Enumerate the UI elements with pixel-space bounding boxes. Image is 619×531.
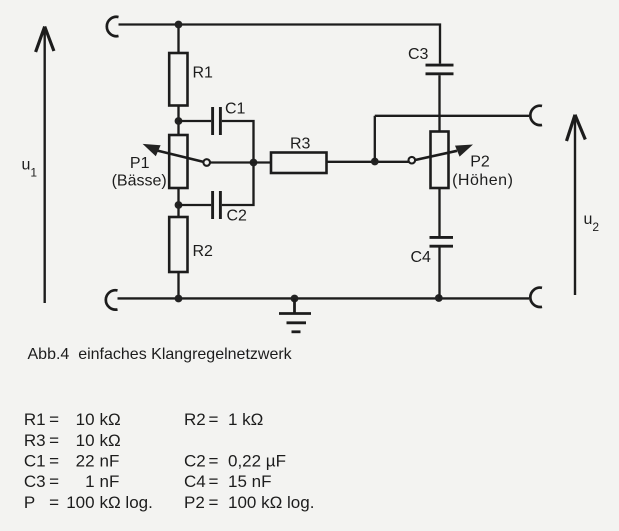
svg-text:100: 100: [66, 493, 94, 512]
svg-text:=: =: [209, 472, 219, 491]
junction: R1 / C1 / P1 node: [175, 117, 183, 125]
svg-text:1 kΩ: 1 kΩ: [228, 410, 263, 429]
wire: R1 to P1: [177, 106, 179, 136]
svg-text:C4: C4: [184, 472, 206, 491]
svg-text:P: P: [24, 493, 35, 512]
capacitor C3: [426, 65, 454, 74]
svg-text:nF: nF: [100, 472, 120, 491]
junction: top rail / R1: [175, 21, 183, 29]
svg-text:C1: C1: [24, 452, 46, 471]
svg-text:P1: P1: [130, 155, 150, 172]
svg-text:C3: C3: [408, 46, 429, 63]
svg-text:=: =: [49, 472, 59, 491]
svg-text:P2: P2: [184, 493, 205, 512]
wire: node to C1 left plate: [179, 120, 212, 122]
value label C4 = 15 nF: [184, 472, 271, 491]
svg-text:C1: C1: [225, 101, 246, 118]
output terminal lower (bottom-right socket): [530, 288, 542, 307]
wire: junction up to output rail: [374, 116, 376, 162]
svg-text:22: 22: [76, 452, 95, 471]
wire: output rail to upper output socket: [375, 115, 529, 117]
capacitor C1: [213, 107, 221, 135]
value label R3 = 10 kOhm: [24, 431, 121, 450]
svg-text:R3: R3: [290, 136, 311, 153]
svg-text:nF: nF: [100, 452, 120, 471]
wire: C2 right plate to wiper bus: [222, 163, 254, 206]
wire: P1 to R2: [177, 188, 179, 217]
P2 wiper contact: [409, 157, 416, 164]
svg-text:1: 1: [85, 472, 94, 491]
wire: top rail down to R1: [177, 25, 179, 54]
resistor R1: [169, 53, 187, 106]
wire: R3 to P2 wiper contact: [327, 161, 409, 163]
svg-text:Abb.4 einfaches Klangregelnet: Abb.4 einfaches Klangregelnetzwerk: [28, 346, 293, 363]
value label P = 100 kOhm log.: [24, 493, 153, 512]
wire: bottom rail: [118, 297, 530, 299]
wire: R2 to bottom rail: [177, 272, 179, 299]
svg-text:10: 10: [76, 410, 95, 429]
junction: P1 / C2 / R2 node: [175, 201, 183, 209]
value label C2 = 0,22 uF: [184, 452, 286, 471]
input terminal upper (top-left socket): [107, 17, 119, 36]
svg-text:R2: R2: [193, 243, 214, 260]
svg-text:=: =: [209, 410, 219, 429]
svg-text:=: =: [49, 452, 59, 471]
svg-text:R3: R3: [24, 431, 46, 450]
wire: node to C2 left plate: [179, 204, 212, 206]
svg-text:(Bässe): (Bässe): [112, 173, 167, 190]
input terminal lower (bottom-left socket): [106, 290, 118, 309]
ground: [279, 299, 311, 332]
svg-text:=: =: [49, 410, 59, 429]
capacitor C2: [213, 191, 221, 219]
junction: wiper bus / R3 wire: [250, 159, 258, 167]
svg-text:(Höhen): (Höhen): [452, 172, 513, 189]
value label C1 = 22 nF: [24, 452, 119, 471]
svg-text:R1: R1: [24, 410, 46, 429]
capacitor C4: [430, 237, 454, 246]
input voltage arrow u1: [36, 27, 54, 304]
potentiometer P1: [143, 135, 204, 188]
svg-text:C4: C4: [411, 249, 432, 266]
junction: bottom rail / C4: [435, 294, 443, 302]
junction: R3 wire / output branch: [371, 158, 379, 166]
svg-text:R2: R2: [184, 410, 206, 429]
svg-text:kΩ: kΩ: [100, 431, 121, 450]
junction: bottom rail / ground: [291, 295, 299, 303]
svg-text:10: 10: [76, 431, 95, 450]
value label C3 = 1 nF: [24, 472, 119, 491]
wire: P2 to C4: [438, 188, 440, 236]
svg-text:kΩ: kΩ: [100, 410, 121, 429]
svg-text:15 nF: 15 nF: [228, 472, 271, 491]
value label R2 = 1 kOhm: [184, 410, 263, 429]
output voltage arrow u2: [567, 115, 586, 295]
value label P2 = 100 kOhm log.: [184, 493, 314, 512]
resistor R3: [271, 153, 327, 174]
wire: C1 right plate to wiper bus: [222, 121, 254, 163]
svg-text:=: =: [209, 493, 219, 512]
svg-text:100 kΩ log.: 100 kΩ log.: [228, 493, 314, 512]
wire: C3 to P2 (crosses output rail): [438, 75, 440, 131]
value label R1 = 10 kOhm: [24, 410, 121, 429]
svg-text:P2: P2: [470, 153, 490, 170]
svg-text:C2: C2: [184, 452, 206, 471]
svg-text:0,22 µF: 0,22 µF: [228, 452, 286, 471]
svg-text:=: =: [49, 493, 59, 512]
junction: bottom rail / R2: [175, 295, 183, 303]
svg-text:=: =: [49, 431, 59, 450]
wire: P1 wiper to R3: [210, 161, 271, 163]
potentiometer P2: [415, 132, 473, 189]
output terminal upper (top-right socket): [530, 106, 542, 125]
svg-text:R1: R1: [193, 65, 214, 82]
wire: top rail from input socket to C3 drop: [119, 25, 441, 64]
resistor R2: [169, 217, 187, 272]
svg-text:C2: C2: [227, 208, 248, 225]
P1 wiper contact: [203, 159, 210, 166]
svg-text:C3: C3: [24, 472, 46, 491]
wire: C4 to bottom rail: [438, 247, 440, 298]
svg-text:=: =: [209, 452, 219, 471]
svg-text:kΩ log.: kΩ log.: [100, 493, 153, 512]
